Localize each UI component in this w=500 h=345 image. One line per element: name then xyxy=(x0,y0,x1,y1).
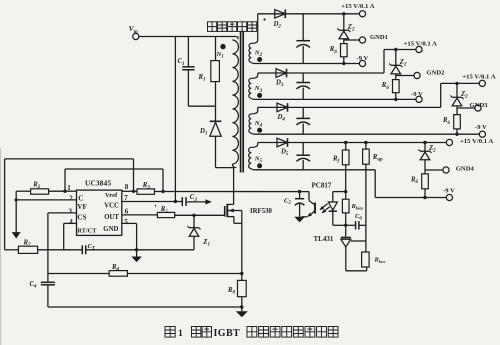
wire sense row xyxy=(48,273,242,275)
label Z2 stage 1 xyxy=(347,24,355,33)
wire LED cathode return xyxy=(333,211,346,225)
pin 5 xyxy=(124,218,128,226)
wire -9 rail stage 3 xyxy=(256,133,480,135)
wire secondary top row stage 1 xyxy=(258,13,363,15)
resistor R3 xyxy=(137,189,155,194)
label -9V stage 2 xyxy=(411,91,423,98)
caption figure glyph xyxy=(165,327,175,338)
label Rf xyxy=(332,155,341,164)
transformer secondary N2 winding xyxy=(249,14,258,64)
resistor R1 label xyxy=(198,74,206,83)
wire C6 right xyxy=(359,224,366,226)
node +15V terminal stage 2 xyxy=(416,46,422,52)
wire D1 anode to drain node xyxy=(216,136,234,167)
diode D4 xyxy=(277,103,288,112)
capacitor output filter stage 4 xyxy=(296,143,310,170)
zener Z2 stage 3 xyxy=(450,96,463,106)
wire TL431 ref xyxy=(351,240,366,242)
caption figure number xyxy=(178,328,183,339)
pin 3 xyxy=(69,208,73,216)
capacitor C1 xyxy=(182,67,194,70)
wire CS column xyxy=(47,213,49,274)
wire zener stub stage 1 xyxy=(343,14,345,30)
wire Rf bottom to LED node xyxy=(345,165,347,199)
wire R6 bottom stage 2 xyxy=(395,93,397,100)
transistor Q1 IRF530 gate bar xyxy=(224,206,226,217)
wire C6 left xyxy=(346,224,356,226)
label Rlow xyxy=(374,256,386,264)
zener Z2 stage 1 xyxy=(337,28,350,38)
pin 7 xyxy=(124,194,128,202)
wire pin8 stub xyxy=(122,190,137,192)
junction stage1 zener tap xyxy=(342,12,345,15)
wire Vin rail down to VCC node xyxy=(174,37,176,202)
wire R1 top xyxy=(215,37,217,61)
svg-text:7: 7 xyxy=(124,194,128,202)
wire GND3 stub xyxy=(457,107,475,109)
svg-text:GND3: GND3 xyxy=(470,102,489,109)
diode D1 label xyxy=(199,128,207,137)
label -9V stage 1 xyxy=(357,55,369,62)
pin name Vref xyxy=(105,192,118,199)
svg-text:+15 V/0.1 A: +15 V/0.1 A xyxy=(462,74,495,81)
wire pin1 stub xyxy=(65,190,77,192)
junction C6 tap xyxy=(344,224,347,227)
wire COMP riser xyxy=(64,169,66,191)
node N2 polarity dot xyxy=(257,57,262,62)
wire -9 rail stage 2 xyxy=(256,98,416,100)
pin name VCC xyxy=(104,203,119,210)
transformer primary N1 winding xyxy=(232,37,238,168)
label D5 xyxy=(280,149,289,158)
wire zener to gnd row stage 1 xyxy=(343,39,345,44)
svg-text:VF: VF xyxy=(77,203,86,211)
resistor R6 stage 2 xyxy=(393,80,400,93)
node +15V terminal stage 4 xyxy=(446,139,452,145)
wire left rail to R7 xyxy=(5,249,19,251)
label R8 xyxy=(227,287,236,296)
wire bottom row xyxy=(48,306,242,308)
label -9V stage 4 xyxy=(443,187,455,194)
pin 1 xyxy=(67,184,71,192)
wire opto collector xyxy=(309,192,315,205)
label -9V stage 3 xyxy=(475,124,487,131)
junction LED anode tap xyxy=(344,190,347,193)
wire Z1 to gnd row xyxy=(193,236,195,250)
caption quanqiao geli qudong dianyuan xyxy=(247,327,338,338)
svg-text:C: C xyxy=(78,194,83,202)
wire R6 bottom stage 1 xyxy=(343,57,345,64)
wire C4 bottom xyxy=(47,284,49,307)
svg-text:3: 3 xyxy=(69,208,73,216)
wire R2 right to COMP node xyxy=(49,190,65,192)
wire R1 bottom xyxy=(215,82,217,122)
svg-text:5: 5 xyxy=(124,218,128,226)
resistor R4 label xyxy=(111,264,120,273)
resistor R2 label xyxy=(32,181,41,190)
arrow VCC feed xyxy=(205,199,211,204)
resistor Rsp xyxy=(363,149,370,164)
capacitor C4 xyxy=(41,274,55,285)
junction C5 tap xyxy=(298,190,301,193)
label +15V stage 1 xyxy=(341,3,374,10)
label +15V stage 2 xyxy=(404,40,437,47)
wire line A xyxy=(5,158,134,160)
wire pin5 to ground xyxy=(136,223,138,256)
junction Z1 tap xyxy=(192,214,195,217)
label Z2 stage 4 xyxy=(428,145,436,154)
resistor Rf xyxy=(342,150,349,165)
label GND3 xyxy=(470,102,489,109)
capacitor C4 label xyxy=(30,281,38,290)
wire secondary top row stage 4 xyxy=(258,142,450,144)
wire gate line xyxy=(175,214,225,216)
wire CT to gnd node xyxy=(86,249,194,251)
wire Z1 stub xyxy=(193,215,195,227)
transformer secondary N3 winding xyxy=(249,73,258,99)
resistor R8 xyxy=(238,280,247,296)
svg-text:OUT: OUT xyxy=(104,214,119,221)
node +15V terminal stage 3 xyxy=(479,80,485,86)
capacitor output filter stage 1 xyxy=(296,14,310,64)
wire zener stub stage 4 xyxy=(424,143,426,152)
wire line B xyxy=(65,168,163,170)
wire line B drop to R3 right xyxy=(162,169,164,192)
opto light arrows xyxy=(320,204,330,214)
resistor R1 xyxy=(211,61,220,82)
wire pin5 stub xyxy=(122,222,137,224)
node N1 polarity dot xyxy=(220,44,225,49)
junction pin8 node xyxy=(132,190,135,193)
capacitor C6 xyxy=(356,221,359,229)
label Z2 stage 2 xyxy=(399,59,407,68)
svg-text:UC3845: UC3845 xyxy=(85,179,111,188)
resistor R6 stage 3 xyxy=(454,115,461,129)
label D4 xyxy=(277,114,286,123)
wire C1 top xyxy=(187,37,189,67)
wire C5 to ground xyxy=(299,203,301,217)
zener Z2 stage 2 xyxy=(389,64,402,74)
transformer secondary N4 winding xyxy=(249,107,258,134)
wire Rsp top stub xyxy=(365,143,367,150)
junction stage1 r6 bottom xyxy=(342,62,345,65)
svg-text:IGBT: IGBT xyxy=(214,328,241,339)
pin name C xyxy=(78,194,83,202)
node +15V terminal stage 1 xyxy=(359,11,365,17)
node N3 polarity dot xyxy=(257,93,262,98)
LED of PC817 xyxy=(328,202,337,211)
wire Rbias bottom xyxy=(345,213,347,237)
wire C3 to arrow xyxy=(186,201,206,203)
wire left rail xyxy=(4,159,6,250)
label R6 stage 1 xyxy=(329,46,338,55)
ground arrow VF xyxy=(12,232,21,238)
caption IGBT xyxy=(214,328,241,339)
ground main xyxy=(236,311,248,317)
junction stage4 r6 bottom xyxy=(423,196,426,199)
diode D5 xyxy=(277,138,288,147)
pin 2 xyxy=(69,195,73,203)
resistor Rbias xyxy=(342,199,349,213)
wire VF column xyxy=(15,191,17,232)
label N2 xyxy=(254,49,263,58)
svg-text:PC817: PC817 xyxy=(312,182,332,190)
transformer core xyxy=(241,31,244,173)
transistor Q1 body arrow xyxy=(228,209,242,213)
node GND3 terminal xyxy=(475,105,481,111)
wire zener to gnd row stage 3 xyxy=(456,106,458,115)
resistor R6 stage 1 xyxy=(341,44,348,57)
label UC3845 xyxy=(85,179,111,188)
svg-text:GND2: GND2 xyxy=(427,70,446,77)
label IRF530 xyxy=(250,208,273,215)
wire R7 to pin4 node xyxy=(38,249,83,251)
junction stage2 zener tap xyxy=(394,48,397,51)
svg-text:+15 V/0.1 A: +15 V/0.1 A xyxy=(404,40,437,47)
pin name GND xyxy=(103,226,118,233)
transformer secondary N5 winding xyxy=(249,143,258,170)
junction Rsp top xyxy=(364,141,367,144)
junction R8 bottom row xyxy=(240,305,243,308)
wire -9 rail stage 4 xyxy=(256,170,447,198)
scan speck xyxy=(155,18,266,206)
resistor R5 xyxy=(157,212,174,217)
label Z1 xyxy=(202,239,210,248)
junction VF xyxy=(15,198,18,201)
svg-text:-9 V: -9 V xyxy=(411,91,423,98)
wire R6 bottom stage 4 xyxy=(424,189,426,198)
zener Z2 stage 4 xyxy=(418,149,431,159)
wire GND4 stub xyxy=(425,169,443,171)
label Z2 stage 3 xyxy=(460,91,468,100)
junction VCC node xyxy=(174,200,177,203)
wire zener to gnd row stage 4 xyxy=(424,160,426,174)
node -9V terminal stage 1 xyxy=(359,60,365,66)
capacitor output filter stage 3 xyxy=(296,107,310,134)
transistor Q1 channel bar xyxy=(226,204,228,217)
label GND2 xyxy=(427,70,446,77)
capacitor C5 xyxy=(295,192,305,206)
label R6 stage 4 xyxy=(410,176,419,185)
label C3 xyxy=(190,194,198,203)
label C5 xyxy=(284,198,291,207)
caption sanxiang xyxy=(192,327,212,338)
resistor R2 xyxy=(31,189,49,194)
capacitor C3 xyxy=(182,197,186,206)
pin 4 xyxy=(69,218,73,226)
svg-text:GND4: GND4 xyxy=(456,165,475,172)
capacitor output filter stage 2 xyxy=(296,73,310,99)
svg-text:1: 1 xyxy=(178,328,183,339)
label PC817 xyxy=(312,182,332,190)
svg-text:VCC: VCC xyxy=(104,203,119,210)
diode D2 xyxy=(275,10,286,19)
wire C1 bottom xyxy=(188,70,215,106)
svg-text:TL431: TL431 xyxy=(314,235,334,243)
junction COMP node xyxy=(63,190,66,193)
label R6 stage 2 xyxy=(381,82,390,91)
label D2 xyxy=(273,21,282,30)
node -9V terminal stage 2 xyxy=(416,96,422,102)
wire GND2 stub xyxy=(396,75,414,77)
svg-text:RT/CT: RT/CT xyxy=(77,228,97,235)
node N5 polarity dot xyxy=(257,163,262,168)
label N1 xyxy=(216,51,224,60)
junction stage3 r6 bottom xyxy=(455,133,458,136)
junction source sense xyxy=(240,272,243,275)
label D3 xyxy=(275,80,284,89)
resistor R3 label xyxy=(142,182,151,191)
node N4 polarity dot xyxy=(257,128,262,133)
pin name RT/CT xyxy=(77,228,97,235)
opto emitter xyxy=(302,211,316,217)
label Rsp xyxy=(372,154,383,163)
capacitor C1 label xyxy=(178,58,185,67)
wire secondary top row stage 3 xyxy=(258,83,483,107)
resistor R4 xyxy=(109,271,127,277)
wire LED anode branch xyxy=(333,192,346,202)
pin name CS xyxy=(77,214,86,222)
pin name VF xyxy=(77,203,86,211)
node GND4 terminal xyxy=(443,167,449,173)
svg-text:8: 8 xyxy=(125,183,129,191)
resistor R5 label xyxy=(160,206,169,215)
wire TL431 anode xyxy=(346,247,367,271)
wire zener stub stage 2 xyxy=(395,50,397,66)
node -9V terminal stage 4 xyxy=(446,194,452,200)
svg-text:+15 V/0.1 A: +15 V/0.1 A xyxy=(460,138,493,145)
wire pin6 stub xyxy=(122,214,158,216)
svg-text:Vref: Vref xyxy=(105,192,118,199)
label CT xyxy=(88,243,96,252)
wire pin7 stub xyxy=(122,201,176,203)
label N5 xyxy=(254,156,263,165)
resistor R6 stage 4 xyxy=(422,174,429,189)
IC UC3845 box xyxy=(77,190,122,235)
pin name OUT xyxy=(104,214,119,221)
wire -9 rail stage 1 xyxy=(256,63,360,65)
wire Rf top stub xyxy=(345,143,347,151)
diode D1 xyxy=(210,121,222,136)
svg-text:+15 V/0.1 A: +15 V/0.1 A xyxy=(341,3,374,10)
svg-text:4: 4 xyxy=(69,218,73,226)
wire VCC to C3 xyxy=(175,201,182,203)
wire COMP long wire to opto xyxy=(155,191,310,193)
junction R3 right xyxy=(161,190,164,193)
capacitor CT xyxy=(82,245,85,254)
wire pin4 stub xyxy=(64,222,77,224)
wire pin3 stub xyxy=(48,212,77,214)
junction stage4 zener tap xyxy=(423,141,426,144)
junction stage2 r6 bottom xyxy=(394,98,397,101)
label Rbias xyxy=(351,203,364,211)
ground pin5 xyxy=(131,257,142,263)
svg-text:GND1: GND1 xyxy=(370,34,388,41)
svg-text:-9 V: -9 V xyxy=(475,124,487,131)
svg-text:-9 V: -9 V xyxy=(443,187,455,194)
label GND4 xyxy=(456,165,475,172)
pin 8 xyxy=(125,183,129,191)
wire pin2 stub xyxy=(16,199,76,201)
label +15V stage 3 xyxy=(462,74,495,81)
pin 6 xyxy=(125,208,129,216)
regulator TL431 xyxy=(341,238,351,248)
wire source column xyxy=(241,211,243,281)
label R6 stage 3 xyxy=(442,117,451,126)
label C6 xyxy=(355,213,362,222)
svg-text:IRF530: IRF530 xyxy=(250,208,273,215)
label N4 xyxy=(254,120,263,129)
wire Vin to primary rail xyxy=(139,36,236,38)
svg-text:GND: GND xyxy=(103,226,118,233)
wire line A drop to pin8 xyxy=(133,159,135,191)
node -9V terminal stage 3 xyxy=(479,131,485,137)
label GND1 xyxy=(370,34,388,41)
svg-text:-9 V: -9 V xyxy=(357,55,369,62)
resistor R7 xyxy=(18,246,37,253)
wire drain riser xyxy=(228,168,234,205)
label N3 xyxy=(254,85,263,94)
label +15V stage 4 xyxy=(460,138,493,145)
wire pin4 riser xyxy=(63,223,65,249)
opto phototransistor bar xyxy=(314,203,316,214)
junction Rf top xyxy=(344,141,347,144)
wire Rsp bottom to ref node xyxy=(365,164,367,252)
wire secondary top row stage 2 xyxy=(258,50,419,74)
wire GND1 stub xyxy=(344,39,360,41)
label TL431 xyxy=(314,235,334,243)
resistor Rlow xyxy=(362,252,370,267)
svg-text:2: 2 xyxy=(69,195,73,203)
wire R8 bottom xyxy=(241,297,243,312)
wire R2 left xyxy=(16,190,30,192)
resistor R7 label xyxy=(23,240,32,249)
wire zener to gnd row stage 2 xyxy=(395,74,397,80)
wire zener stub stage 3 xyxy=(456,83,458,97)
node Vin input terminal xyxy=(129,24,139,39)
node GND1 terminal xyxy=(359,37,365,43)
wire R6 bottom stage 3 xyxy=(456,129,458,134)
node GND2 terminal xyxy=(414,72,420,78)
label flyback transformer xyxy=(208,22,257,32)
diode D3 xyxy=(276,69,287,78)
ground opto xyxy=(294,217,305,223)
junction gnd row xyxy=(135,248,138,251)
svg-text:CS: CS xyxy=(77,214,86,222)
zener Z1 xyxy=(187,226,200,236)
junction stage3 zener tap xyxy=(455,82,458,85)
transistor Q1 source xyxy=(228,217,242,224)
